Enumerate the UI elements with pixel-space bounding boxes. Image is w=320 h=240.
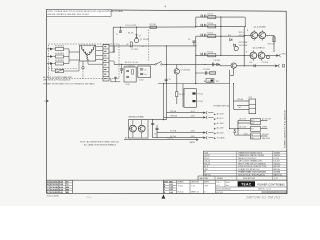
revision block row divider 4 [47,190,73,192]
revision column divider 4 [164,190,177,192]
RY2 feed wire 1 [234,100,250,102]
C7 ground node [121,72,122,73]
row1-row2 link junction [245,26,246,27]
D10 lead [234,132,236,135]
RY2 divider b [249,108,256,110]
svg-text:Q3-6: Q3-6 [204,152,208,154]
connector CN1 pin 1 divider [103,43,109,45]
revision column divider 1 [164,182,177,184]
K1 stub to AC rail [209,83,211,84]
Q10 emitter lead [132,132,134,138]
power switch S1 lever [156,61,161,64]
resistor R2 vertical [130,42,132,47]
svg-text:ALL CAPACITORS IN MICROFARADS.: ALL CAPACITORS IN MICROFARADS. [84,144,117,147]
riser to AC rail [114,46,116,52]
row1-row2 link vertical [244,17,246,26]
title block outline [164,180,287,193]
socket arc PW RA [205,111,208,114]
bus junction row3 [244,36,245,37]
connector CN1 pin 2 contact [104,50,106,52]
svg-text:AC 100V: AC 100V [217,112,225,115]
base rail extension to Q9 [177,63,220,65]
svg-text:52-1004: 52-1004 [274,171,280,174]
svg-text:DD-104: DD-104 [274,161,280,163]
capacitor C12a plates [200,24,202,27]
capacitor C11a plates [200,15,202,18]
wire: switch rail [114,63,155,65]
material header row box [198,176,287,180]
resistor R13 body [208,35,216,38]
feeder riser row3 [195,36,197,46]
junction bus B top [166,45,167,46]
svg-text:DWG No. 1 2 3 4: DWG No. 1 2 3 4 [258,189,271,191]
svg-text:POWER CONTROL: POWER CONTROL [257,182,282,186]
selector stub TMS RA [208,116,213,118]
svg-text:BEFORE OPERATION. SEE ASSY DWG: BEFORE OPERATION. SEE ASSY DWG 52-1004 [48,13,89,16]
svg-text:ECN-145: ECN-145 [50,186,59,189]
resistor R11 body [208,16,216,19]
vertical supply bus A [163,84,165,120]
transformer T1 primary winding (diagonal coil left) [81,46,87,54]
capacitor C1 plates [119,30,122,32]
branch junction [195,72,196,73]
selector stub PW RA [208,112,213,114]
channel bus vertical [220,17,222,55]
connector CN1 pin 7 divider [103,71,109,73]
fuse FU1 on +B rail [150,26,157,28]
RY1 contact a [192,92,195,94]
capacitor C8 plates [114,77,117,79]
revision column divider 2 [164,184,177,186]
svg-text:2SB734 (2SD880): 2SB734 (2SD880) [128,116,144,118]
Q7 internal bar [175,70,177,73]
F4 feed wire [52,70,56,72]
svg-text:DESCRIPTION: DESCRIPTION [243,178,256,180]
capacitor C14a plates [200,53,202,56]
wire bus to mains row3 [230,127,238,129]
PCB edge connector CN1 body [103,44,109,81]
svg-text:FINISH: FINISH [217,178,223,180]
svg-text:CAP 0.01/50V CERAMIC DISC: CAP 0.01/50V CERAMIC DISC [238,160,263,163]
plug arrow TMS RA [203,116,206,118]
transistor Q8 [234,46,238,50]
capacitor C14b plates [204,53,206,56]
shield partition dashed [148,30,150,61]
svg-text:ECN-232: ECN-232 [50,192,58,194]
svg-text:MF-51N: MF-51N [274,166,281,168]
svg-text:B 52-100430: B 52-100430 [47,196,59,198]
stray pencil mark [87,197,92,198]
svg-text:B8P-SH: B8P-SH [274,169,281,171]
junction bus/mains row3 [229,128,230,129]
resistor R12 body [208,25,216,28]
selector option arrow AC 100V [214,114,216,116]
mains junction dot B [237,128,238,129]
selector option arrow AC 200V [214,123,216,125]
revision block row divider 1 [47,182,73,184]
svg-text:AC 240V: AC 240V [217,132,225,135]
Q5 bottom stub [252,59,254,61]
junction +B riser / CN1 pin wire [113,52,114,53]
AC return end arrow [196,139,199,141]
selector stub PLT RA [208,132,213,134]
junction feeder/output rail [244,65,245,66]
RY1 contact b [192,100,195,102]
vertical wire at x113 [112,27,114,52]
cap C21 plates on rail [253,64,255,67]
Q9 collector stroke [233,64,235,65]
output socket arc SP-A [279,54,282,57]
transistor Q7 [174,69,179,74]
svg-text:TOL: TOL [216,182,219,184]
notes box corner fold [107,10,111,13]
substitution table row divider 8 [203,172,286,174]
svg-text:A3 52-100430-00: A3 52-100430-00 [216,188,230,191]
svg-text:AC INLET & POWER TRANS UNIT: AC INLET & POWER TRANS UNIT [43,76,73,79]
wire transformer secondary to CN1 pin 2 [96,49,103,51]
svg-text:C3: C3 [144,69,146,71]
svg-text:Q1 2SC945: Q1 2SC945 [140,39,149,41]
capacitor block C3/C4 outline [138,66,151,78]
enclosure internal dashed divider [48,68,78,70]
plug arrow PW RA [203,112,206,114]
svg-text:IC1 NJM7812: IC1 NJM7812 [124,65,135,67]
Q7 collector stroke [176,70,178,71]
wire Q7 emitter down [176,74,178,91]
title block vertical divider x=190.0 [189,180,191,193]
junction at 199.6/45.9 [195,45,196,46]
svg-text:R11-14: R11-14 [204,163,210,165]
svg-text:Q5,6 2SB734: Q5,6 2SB734 [253,48,266,50]
terminal wire right 2 [261,127,268,129]
svg-text:R1 100 1/2W: R1 100 1/2W [126,25,137,27]
material header divider c [272,176,274,180]
title header divider [177,182,216,184]
selector wire NO RA [153,137,203,139]
block3 divider [251,135,261,137]
socket arc TMS RA [205,116,208,119]
connector CN1 pin 4 contact [104,59,106,61]
revision block row divider 2 [47,185,73,187]
svg-text:RY2: RY2 [249,97,252,99]
channel 2 wire [196,25,244,27]
Q9 internal bar [232,64,234,67]
svg-text:Q7 2SD468: Q7 2SD468 [180,70,189,72]
left border center tick [44,100,48,103]
svg-text:HM: HM [66,192,69,194]
relay RY1 coil box [184,89,196,108]
channel 4 junction [220,55,221,56]
feeder junction row2 [195,26,196,27]
resistor R14 body [208,54,216,57]
svg-text:C22 R25: C22 R25 [214,60,221,62]
feeder vertical lower [195,46,197,84]
wire Q6 to output [265,55,276,57]
sheet border frame [47,10,287,194]
substitution table row divider 4 [203,161,286,163]
substitution table row divider 7 [203,169,286,171]
svg-text:'83-9-10: '83-9-10 [177,192,183,194]
selector option arrow AC 220V [214,128,216,130]
Q5 top stub [252,50,254,52]
diode D10 [234,130,236,133]
svg-text:N2: N2 [251,137,253,139]
svg-text:R11 1k: R11 1k [207,14,213,16]
connector CN1 pin 8 divider [103,75,109,77]
jog to Q9 base [219,64,221,65]
svg-text:C9: C9 [169,79,171,81]
wire bus to transformer primary lower [69,59,80,61]
AC inlet pin E arrow [50,62,53,65]
svg-text:R40 10: R40 10 [168,138,174,140]
diode D6 [233,44,235,47]
power transistor Q6 [258,52,265,59]
material header divider a [214,176,216,180]
material header divider b [236,176,238,180]
svg-text:SW 100V: SW 100V [262,134,270,136]
wire Q3-Q4 [258,34,259,36]
wire Q9 to output rail [236,65,275,67]
heatsink outline [128,120,148,138]
connector CN1 pin 5 contact [104,64,106,66]
AC inlet pin E wire [47,63,50,65]
Q11 collector lead [141,120,143,126]
mains terminal block 1 [251,119,261,125]
capacitor C23 plates [205,71,207,75]
svg-text:TEAC: TEAC [241,183,252,187]
zener diode D1 [135,35,138,38]
power switch S1 contacts [155,64,157,66]
wire transformer secondary to CN1 pin 1 [96,46,103,48]
channel 4 wire [196,54,244,56]
substitution table row divider 3 [203,158,286,160]
selector stub NO RA [208,137,213,139]
vertical bus x229 upper [229,70,231,84]
power transistor Q5 [250,52,257,59]
output connector arrow SP-A [276,54,279,57]
channel 2 junction [220,26,221,27]
svg-text:OUT: OUT [249,62,253,64]
connector CN1 pin 8 contact [104,78,106,80]
fuse F1 body [55,47,63,50]
svg-text:C21 0.01: C21 0.01 [262,62,269,64]
svg-text:R12 1k: R12 1k [207,23,213,25]
wire Q9 collector down [233,68,235,75]
Q6 bottom stub [261,59,263,61]
selector wire PW RA [166,112,203,114]
ladder bottom rail [111,81,120,83]
AC inlet bus vertical [68,49,70,64]
svg-text:CN1: CN1 [204,169,208,171]
connector CN1 pin 2 divider [103,48,109,50]
IC1 internal cap b [126,76,129,78]
svg-text:UNSW: UNSW [262,126,267,128]
svg-text:(SEE NOTE 1) PN 52-100429-00: (SEE NOTE 1) PN 52-100429-00 [43,80,70,82]
connector CN1 pin 6 contact [104,69,106,71]
svg-text:AC 220V: AC 220V [217,127,225,130]
svg-text:UNIT: UNIT [226,182,230,184]
RY1 left feed wire [182,84,184,108]
capacitor C8 vertical [115,77,117,82]
power transistor Q4 [259,32,266,39]
connector CN1 pin 6 divider [103,66,109,68]
svg-text:SHEET 1/1: SHEET 1/1 [191,192,199,194]
svg-text:R13 1k: R13 1k [207,33,213,35]
Q3 bottom stub [253,39,255,41]
title block vertical divider x=203.5 [203,180,205,193]
Q4 bottom stub [261,39,263,41]
svg-text:MATERIAL: MATERIAL [200,177,209,180]
dashed enclosure: AC inlet & power transformer unit [48,44,119,79]
svg-text:R21 56: R21 56 [239,32,245,34]
RY2 divider a [249,103,256,105]
bottom title strip top line [47,179,287,181]
svg-text:4-84: 4-84 [169,188,172,191]
svg-text:POWER CONTROL P.C.B 52-100430-: POWER CONTROL P.C.B 52-100430-00 [284,109,286,148]
svg-text:F2 2A 250V: F2 2A 250V [55,52,65,55]
svg-text:R31 0.22: R31 0.22 [268,44,275,46]
K1 internal mark [211,80,214,82]
output socket arc SP-B [278,64,281,67]
svg-text:1-84: 1-84 [169,186,172,189]
branch row wire [196,72,216,74]
substitution table column divider 1 [236,151,238,176]
mains row 4 wire [243,134,251,136]
svg-text:R22: R22 [228,35,231,37]
Q6 top stub [261,50,263,52]
junction switch rail / bus A [166,64,167,65]
svg-text:NOTE : ALL RESISTORS IN OHMS,: NOTE : ALL RESISTORS IN OHMS, 1/4W ±5% [80,141,119,144]
connector CN1 pin 3 divider [103,53,109,55]
capacitor C6 lead [193,42,195,46]
capacitor C12b plates [204,24,206,27]
terminal wire right 3 [261,135,268,137]
svg-text:LY2-24: LY2-24 [274,158,280,160]
title block right divider row a [216,186,287,188]
wire R5 down [176,97,178,104]
channel 3 junction [220,36,221,37]
mains junction dot A [237,122,238,123]
revision block outline [47,180,73,193]
heatsink top rail [128,119,166,121]
substitution table column divider 2 [272,151,274,176]
svg-text:FUSE 2A 250V SLOW BLOW TYPE: FUSE 2A 250V SLOW BLOW TYPE [238,165,267,168]
svg-text:±0.5: ±0.5 [216,185,219,187]
block1 divider [251,121,261,123]
svg-text:NOTE: VOLTAGE SELECTOR PLUG MU: NOTE: VOLTAGE SELECTOR PLUG MUST BE SET … [48,10,124,13]
wire bus to transformer primary upper [69,51,80,53]
revision block column divider a [49,180,51,193]
transformer bottom lead to ladder [87,61,89,64]
power transistor Q10 [130,125,137,132]
tolerance cell divider [224,180,226,187]
decoupling node junction [121,64,122,65]
svg-text:(H)S: (H)S [280,183,285,186]
svg-text:C11-14: C11-14 [204,161,210,163]
wire row1 to link [244,16,245,18]
svg-text:C4: C4 [144,74,146,76]
relay RY2 box [249,99,256,114]
connector CN1 pin 1 contact [104,46,106,48]
substitution table row divider 1 [203,153,286,155]
wire thermal fuse to enclosure bottom [82,69,84,79]
revision block column divider b [57,180,59,193]
revision column divider 3 [164,187,177,189]
power transistor Q11 [138,125,145,132]
title block right divider row b [216,189,287,191]
AC inlet pin L wire [47,48,50,50]
mains terminal block 2 [251,126,261,131]
L-wire Q9 to bus [230,74,234,76]
svg-text:Q3,4 2SD880: Q3,4 2SD880 [254,26,267,28]
wire transformer secondary to CN1 pin 3 [96,54,103,56]
resistor R5 vertical [176,92,178,97]
junction C30/top rail [152,119,153,120]
capacitor C13b plates [204,34,206,37]
wire transformer bottom to CN1 [88,63,103,65]
IC1 internal resistor [132,70,134,75]
svg-text:RY1-A: RY1-A [197,93,203,96]
SP-B terminal box [282,65,284,67]
bottom AC return wire [124,139,196,141]
svg-text:C1: C1 [116,34,118,36]
wire fuse E to bus [53,63,55,65]
vertical mains link [237,120,239,135]
C30 plates [151,122,154,124]
IC block IC1 outline [124,67,136,82]
svg-text:DRAWN: DRAWN [177,181,184,184]
C31 plates [156,127,159,129]
manufacturer logo block [238,181,255,186]
emitter sense loop [266,56,269,59]
ruler tick strip [261,191,263,193]
AC inlet pin N wire [47,56,50,58]
capacitor C22 plates [212,63,214,67]
fuse F3 body [55,62,63,65]
svg-text:R4 10k: R4 10k [128,32,134,34]
svg-text:TRANSISTOR 2SD880 (Y)/(O): TRANSISTOR 2SD880 (Y)/(O) [238,151,262,154]
wire fuse L to bus [53,48,55,50]
Q10 collector lead [132,120,134,126]
connector CN1 pin 5 divider [103,62,109,64]
feeder junction row4 [195,55,196,56]
mains terminal block 3 [251,133,261,139]
feeder riser row1 [195,17,197,27]
general notes box [47,10,112,17]
svg-text:F3 2A 250V: F3 2A 250V [55,59,65,62]
vertical bus x229 lower [229,84,231,129]
revision block row divider 3 [47,187,73,189]
Q7 base lead [176,64,178,68]
Q3 top stub [253,30,255,32]
wire fuse N to bus [53,56,55,58]
mains row 3 wire [238,127,251,129]
C3 symbol [140,68,143,70]
capacitor C9 plates above rail [165,78,168,80]
Q4 top stub [261,30,263,32]
diode D8 [217,63,219,66]
svg-text:AC 117V: AC 117V [217,117,225,120]
svg-text:C23 10/25: C23 10/25 [203,69,211,71]
svg-text:D1: D1 [139,35,141,37]
junction feed/AC rail [233,83,234,84]
wire: unswitched AC rail [158,83,230,85]
bottom center registration arrow [162,194,166,198]
ladder pin wire to AC rail [109,51,115,53]
fuse F4 body (with element) [55,69,63,72]
revision block column divider c [64,180,66,193]
wire D10 to mains row4 [235,134,243,136]
